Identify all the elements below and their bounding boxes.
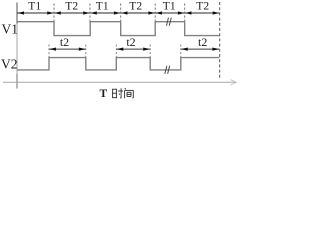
node arrowheads boundary x=54 (47, 11, 61, 14)
svg-text:T: T (100, 88, 108, 100)
wire dashed boundary x=90 (89, 4, 91, 22)
svg-text:t2: t2 (60, 35, 69, 49)
svg-text:T1: T1 (96, 0, 109, 12)
wire dashed t2 guide x=177 (180, 45, 182, 58)
label 间 glyph (125, 88, 134, 98)
wire dashed t2 guide x=48.5 (48, 45, 50, 58)
wire dashed t2 guide x=113 (115, 45, 117, 58)
node arrowhead right end x=231 (213, 11, 220, 14)
wire dashed boundary x=54 (53, 4, 55, 22)
wire dashed t2 guide x=149 (149, 45, 151, 58)
wire dashed boundary x=154.5 (154, 4, 156, 22)
node arrowheads boundary x=120 (114, 11, 128, 14)
svg-text:T2: T2 (129, 0, 142, 12)
wire t2 arrow 1 (49, 48, 85, 50)
node break mark on V2 (165, 66, 167, 74)
wire time axis (3, 81, 236, 83)
node arrowheads boundary x=90 (83, 11, 97, 14)
svg-text:T2: T2 (196, 0, 209, 12)
wire dashed boundary x=120 (120, 4, 122, 22)
node break mark on V1 (166, 18, 168, 26)
wire V1 waveform (17, 22, 219, 36)
svg-text:T1: T1 (163, 0, 176, 12)
svg-text:t2: t2 (126, 35, 135, 49)
wire dashed boundary x=183 (184, 4, 186, 22)
node arrowheads boundary x=183 (178, 11, 192, 14)
node arrowheads boundary x=154.5 (148, 11, 162, 14)
wire t2 arrow 3 (181, 48, 219, 50)
wire V2 waveform (17, 58, 219, 70)
wire dashed t2 guide x=86.5 (85, 45, 87, 58)
wire T measurement line (17, 12, 219, 14)
wire dashed right edge x=231.5 (219, 2, 221, 78)
node left boundary vertical line x=17 (16, 3, 18, 24)
svg-text:T2: T2 (65, 0, 78, 12)
wire t2 arrow 2 (117, 48, 150, 50)
svg-text:V1: V1 (2, 21, 19, 36)
svg-text:V2: V2 (1, 56, 18, 71)
svg-text:t2: t2 (198, 35, 207, 49)
svg-text:T1: T1 (28, 0, 41, 12)
label 时 glyph (112, 88, 123, 98)
node arrowhead left end x=17 (18, 11, 25, 14)
